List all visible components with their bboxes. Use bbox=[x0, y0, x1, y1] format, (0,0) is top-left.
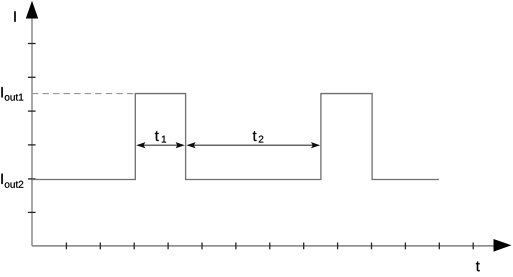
y-axis tick 3 bbox=[28, 110, 36, 112]
x-axis tick 1 bbox=[65, 243, 67, 250]
current waveform (two pulses) bbox=[32, 94, 439, 180]
label Iout1 bbox=[1, 87, 23, 101]
y-axis tick 6 bbox=[28, 211, 36, 213]
x-axis tick 7 bbox=[269, 243, 271, 250]
y-axis (I axis) bbox=[31, 10, 33, 246]
t1 dimension arrow line bbox=[140, 144, 181, 146]
x-axis tick 6 bbox=[235, 243, 237, 250]
y-axis tick 2 bbox=[28, 76, 36, 78]
x-axis tick 10 bbox=[371, 243, 373, 250]
y-axis tick 5 (at Iout2 level) bbox=[28, 178, 36, 180]
x-axis tick 11 bbox=[404, 243, 406, 250]
t1 right arrowhead bbox=[176, 142, 185, 148]
t1 left arrowhead bbox=[136, 142, 145, 148]
x-axis arrowhead bbox=[494, 239, 512, 252]
label I (y axis) bbox=[14, 11, 15, 21]
dashed reference line at Iout1 level bbox=[32, 93, 133, 95]
y-axis tick 1 bbox=[28, 43, 36, 45]
label t (x axis) bbox=[476, 262, 480, 272]
y-axis tick 4 bbox=[28, 144, 36, 146]
x-axis tick 2 bbox=[99, 243, 101, 250]
x-axis (t axis) bbox=[32, 245, 495, 247]
label t2 bbox=[253, 131, 264, 142]
x-axis tick 13 bbox=[472, 243, 474, 250]
label Iout2 bbox=[1, 174, 23, 188]
x-axis tick 4 bbox=[167, 243, 169, 250]
x-axis tick 9 bbox=[337, 243, 339, 250]
x-axis tick 5 bbox=[201, 243, 203, 250]
x-axis tick 8 bbox=[303, 243, 305, 250]
t2 right arrowhead bbox=[311, 142, 320, 148]
y-axis arrowhead bbox=[26, 1, 38, 19]
t2 dimension arrow line bbox=[190, 144, 317, 146]
t2 left arrowhead bbox=[186, 142, 195, 148]
label t1 bbox=[155, 131, 166, 142]
x-axis tick 3 bbox=[133, 243, 135, 250]
x-axis tick 12 bbox=[438, 243, 440, 250]
